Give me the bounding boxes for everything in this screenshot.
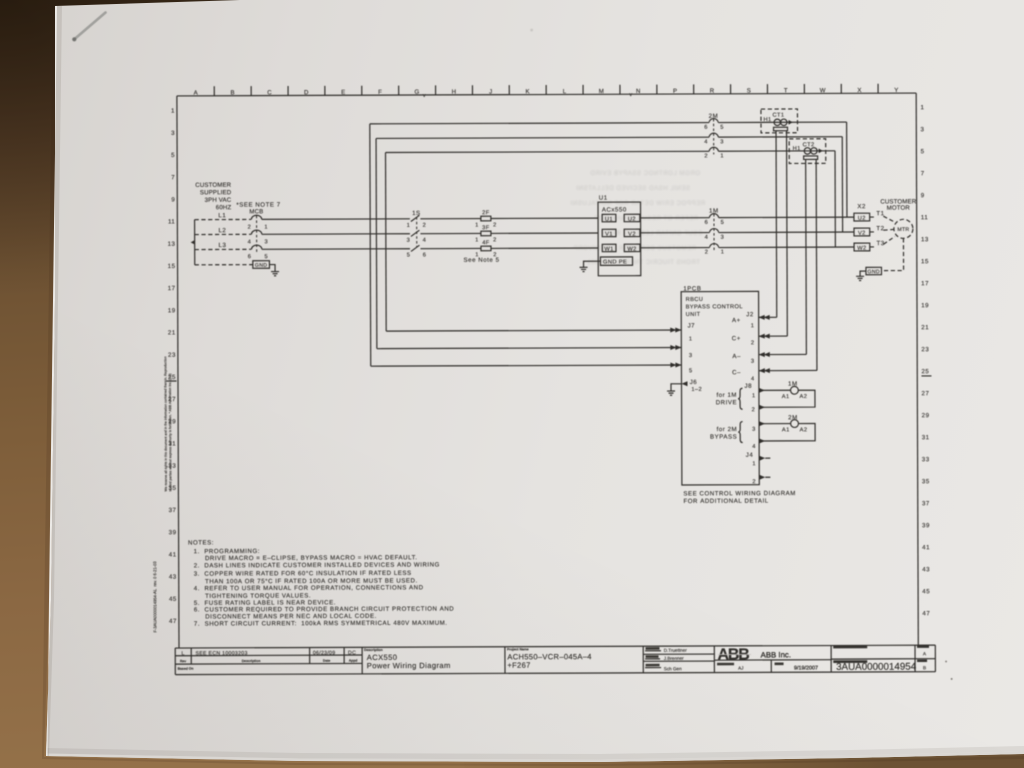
svg-text:RBCU: RBCU [686, 297, 704, 303]
svg-text:4: 4 [751, 376, 755, 382]
svg-text:11: 11 [168, 219, 176, 226]
svg-text:MCB: MCB [249, 208, 263, 215]
svg-text:Description: Description [242, 659, 261, 663]
svg-text:1: 1 [752, 461, 756, 467]
wire J2 pin2 to CT1b [759, 334, 788, 339]
wire J6 ground [671, 384, 682, 391]
svg-text:FOR ADDITIONAL DETAIL: FOR ADDITIONAL DETAIL [683, 498, 768, 505]
ground symbol J6 [667, 391, 675, 395]
svg-text:U1: U1 [605, 217, 613, 223]
svg-text:2: 2 [248, 225, 252, 231]
wire J2 pin3 to CT2a [759, 352, 807, 357]
svg-text:AJ: AJ [738, 666, 743, 671]
svg-text:UNIT: UNIT [686, 312, 701, 318]
svg-text:3: 3 [720, 139, 724, 145]
svg-text:D: D [304, 89, 309, 96]
svg-text:SEE CONTROL WIRING DIAGRAM: SEE CONTROL WIRING DIAGRAM [683, 490, 796, 497]
sheet cell [917, 645, 929, 671]
svg-text:1: 1 [475, 237, 479, 243]
svg-text:3: 3 [752, 427, 756, 433]
svg-text:13: 13 [921, 236, 929, 243]
coil 2M [782, 414, 808, 433]
svg-text:GND PE: GND PE [603, 259, 627, 265]
svg-text:11: 11 [921, 214, 929, 221]
svg-text:A2: A2 [800, 394, 808, 400]
fuse 2F [475, 210, 497, 228]
svg-text:P: P [673, 88, 678, 95]
svg-text:A1: A1 [782, 427, 790, 433]
svg-text:to third parties without expre: to third parties without express authori… [168, 373, 172, 491]
svg-text:1: 1 [751, 323, 755, 329]
document number cell [833, 660, 916, 673]
svg-text:5: 5 [171, 152, 175, 159]
wire J2 pin4 to CT2b [759, 368, 817, 373]
connector J4 [746, 452, 771, 486]
svg-text:L: L [563, 88, 567, 95]
svg-text:41: 41 [922, 544, 930, 551]
svg-text:C: C [267, 89, 272, 96]
svg-text:L: L [181, 651, 184, 657]
svg-text:1: 1 [920, 104, 924, 111]
svg-text:V1: V1 [605, 232, 613, 238]
svg-text:T2: T2 [876, 225, 884, 232]
terminal V2 [624, 229, 640, 237]
svg-text:Description: Description [364, 648, 383, 652]
svg-text:F: F [378, 89, 382, 96]
wire phase U input run [262, 218, 598, 219]
vertical copyright text left margin [163, 356, 172, 491]
wire bypass riser A [369, 124, 372, 366]
svg-text:BYPASS: BYPASS [710, 434, 737, 441]
svg-text:ABB Inc.: ABB Inc. [761, 650, 791, 659]
wire drive output U2 [640, 216, 854, 219]
revision row L [181, 650, 356, 657]
column letters A-Y [194, 87, 899, 97]
svg-text:19: 19 [921, 302, 929, 309]
wire L1 dashed [195, 218, 252, 220]
wire bypass drop to U2 [846, 122, 848, 217]
svg-text:15: 15 [168, 263, 176, 270]
svg-text:Based On: Based On [178, 667, 194, 671]
svg-text:BYPASS CONTROL: BYPASS CONTROL [686, 304, 743, 310]
svg-text:A2: A2 [800, 427, 808, 433]
svg-text:06/23/09: 06/23/09 [313, 650, 336, 656]
svg-text:Appd: Appd [349, 659, 358, 663]
svg-text:9: 9 [921, 192, 925, 199]
svg-text:L2: L2 [218, 227, 226, 234]
svg-text:6: 6 [704, 125, 708, 131]
svg-text:U1: U1 [599, 195, 608, 202]
svg-text:4: 4 [704, 139, 708, 145]
svg-text:7: 7 [171, 174, 175, 181]
svg-text:N: N [636, 88, 641, 95]
connector J2 labels [732, 311, 755, 382]
coil 1M [782, 381, 808, 401]
notes text block [188, 539, 454, 628]
svg-text:1: 1 [475, 223, 479, 229]
underline row 25 right [921, 375, 931, 377]
svg-text:2: 2 [751, 340, 755, 346]
svg-text:2: 2 [752, 407, 756, 413]
svg-text:H1: H1 [793, 146, 801, 152]
svg-text:2F: 2F [482, 210, 490, 216]
svg-text:4F: 4F [482, 240, 490, 246]
node T1 [870, 210, 895, 222]
wire motor ground dashed [881, 238, 903, 270]
drive U1 ACx550 [598, 194, 641, 275]
wire bypass top line 2 [376, 137, 842, 139]
wire 2M coil loop [759, 423, 815, 441]
svg-text:J.Brenner: J.Brenner [664, 656, 684, 661]
svg-text:W2: W2 [857, 246, 866, 252]
svg-text:A: A [194, 90, 199, 97]
terminal GND PE [600, 257, 632, 266]
node L3 [195, 242, 252, 250]
faint bleed-through from reverse side [570, 171, 705, 266]
row numbers right [920, 104, 930, 617]
svg-text:31: 31 [922, 434, 930, 441]
see control wiring note [683, 490, 796, 505]
svg-text:2: 2 [423, 223, 427, 229]
svg-text:2: 2 [705, 250, 709, 256]
label for 2M bypass [710, 422, 743, 443]
svg-text:5: 5 [721, 220, 725, 226]
svg-text:37: 37 [922, 500, 930, 507]
svg-text:J: J [489, 89, 493, 96]
terminal X2 V2 [854, 228, 870, 237]
wire bypass top line 1 [370, 122, 847, 124]
svg-text:4: 4 [705, 235, 709, 241]
svg-text:3: 3 [721, 235, 725, 241]
svg-text:CUSTOMER: CUSTOMER [195, 182, 231, 189]
customer supplied source label [195, 182, 232, 212]
svg-text:3: 3 [689, 353, 693, 359]
svg-text:5: 5 [265, 254, 269, 260]
terminal V1 [602, 229, 616, 237]
svg-text:41: 41 [169, 551, 177, 558]
svg-text:K: K [525, 88, 530, 95]
wire J7 sense line 2 [377, 345, 682, 351]
ground symbol motor [856, 276, 864, 280]
resp dept cell [717, 663, 743, 671]
svg-text:2: 2 [704, 153, 708, 159]
svg-text:5: 5 [720, 125, 724, 131]
terminal GND input [253, 261, 270, 269]
row numbers left [167, 108, 177, 625]
svg-text:5: 5 [921, 148, 925, 155]
svg-text:6: 6 [423, 252, 427, 258]
svg-text:4: 4 [248, 239, 252, 245]
underline row 25 left [166, 380, 176, 382]
svg-text:SUPPLIED: SUPPLIED [200, 189, 232, 196]
title block outline [175, 645, 935, 675]
svg-text:W2: W2 [627, 247, 636, 253]
svg-text:4. REFER TO USER MANUAL FOR O: 4. REFER TO USER MANUAL FOR OPERATION, C… [194, 584, 424, 592]
wire 1M coil loop [759, 390, 815, 407]
svg-text:Power Wiring Diagram: Power Wiring Diagram [367, 661, 451, 670]
wire bypass drop to V2 [841, 137, 843, 232]
svg-text:35: 35 [922, 478, 930, 485]
node L2 [195, 227, 252, 234]
svg-text:DRIVE: DRIVE [716, 399, 737, 406]
svg-text:3: 3 [407, 238, 411, 244]
connector J6 [681, 379, 702, 393]
wire bypass riser C [385, 153, 388, 332]
svg-text:Date: Date [323, 659, 330, 663]
svg-text:1: 1 [689, 336, 693, 342]
svg-text:Sch Gen: Sch Gen [664, 666, 682, 671]
svg-text:43: 43 [169, 574, 177, 581]
svg-text:v: v [629, 92, 632, 98]
svg-text:DC: DC [348, 650, 356, 656]
wire bypass riser B [375, 138, 378, 348]
svg-text:A1: A1 [782, 394, 790, 400]
svg-text:23: 23 [921, 346, 929, 353]
source bracket [191, 220, 195, 265]
svg-text:3: 3 [264, 239, 268, 245]
svg-text:3F: 3F [482, 225, 490, 231]
svg-text:33: 33 [922, 456, 930, 463]
svg-text:2: 2 [752, 479, 756, 485]
svg-text:MOTOR: MOTOR [887, 205, 911, 212]
svg-text:NOTES:: NOTES: [188, 539, 214, 546]
svg-text:1: 1 [752, 393, 756, 399]
column letter ticks [214, 84, 878, 96]
svg-text:F-3AUA0000014954-AL rev. 0 6-: F-3AUA0000014954-AL rev. 0 6-21-03 [152, 561, 157, 633]
wire GND dashed from bracket [195, 264, 253, 266]
svg-text:3. COPPER WIRE RATED FOR 60°C: 3. COPPER WIRE RATED FOR 60°C INSULATION… [194, 570, 412, 578]
svg-text:Y: Y [894, 87, 899, 94]
terminal W2 [624, 244, 640, 252]
svg-text:5: 5 [407, 253, 411, 259]
revision header row [178, 659, 358, 671]
project name cell [507, 647, 592, 670]
date cell [775, 662, 818, 671]
svg-text:Project Name: Project Name [507, 647, 529, 651]
svg-text:2: 2 [493, 237, 497, 243]
svg-text:B: B [923, 665, 926, 671]
svg-text:L1: L1 [218, 212, 226, 219]
svg-text:2. DASH LINES INDICATE CUSTOM: 2. DASH LINES INDICATE CUSTOMER INSTALLE… [194, 562, 440, 570]
motor MTR [894, 219, 913, 238]
node T2 [870, 225, 894, 232]
terminal U1 [602, 214, 616, 222]
svg-text:v: v [423, 93, 426, 99]
terminal X2 U2 [854, 213, 870, 222]
svg-text:9/19/2007: 9/19/2007 [794, 665, 818, 671]
svg-text:15: 15 [921, 258, 929, 265]
svg-text:A+: A+ [732, 317, 741, 324]
wire L2 dashed [195, 233, 252, 235]
svg-text:E: E [341, 89, 346, 96]
contactor 2M [704, 113, 724, 160]
svg-text:47: 47 [922, 610, 930, 617]
svg-text:L3: L3 [219, 242, 227, 249]
wire CT1 secondary a [775, 131, 778, 318]
svg-text:ACx550: ACx550 [602, 206, 627, 213]
svg-text:4: 4 [423, 238, 427, 244]
svg-text:X2: X2 [857, 203, 866, 210]
svg-text:21: 21 [168, 330, 176, 337]
svg-text:39: 39 [169, 529, 177, 536]
svg-text:W: W [820, 87, 826, 94]
svg-text:See Note 5: See Note 5 [464, 257, 500, 264]
svg-text:SENIL HSAD SECIVED DELLATSNI: SENIL HSAD SECIVED DELLATSNI [576, 186, 690, 192]
contactor 1S [407, 210, 427, 259]
svg-text:1: 1 [171, 108, 175, 115]
connector J8 [744, 383, 765, 450]
svg-text:H: H [452, 89, 457, 96]
wire drive ground pigtail [584, 261, 601, 267]
svg-text:6: 6 [705, 220, 709, 226]
reference number cell [833, 646, 867, 649]
paper specks [530, 27, 952, 681]
svg-text:6: 6 [248, 254, 252, 260]
svg-text:29: 29 [922, 412, 930, 419]
svg-text:T: T [784, 87, 788, 94]
wire motor ground stub [860, 271, 866, 276]
wire phase V input run [262, 233, 598, 234]
svg-text:J8: J8 [744, 383, 752, 390]
svg-text:1: 1 [264, 225, 268, 231]
svg-text:4: 4 [752, 444, 756, 450]
label for 1M drive [716, 388, 743, 409]
wire J7 sense line 1 [386, 327, 681, 333]
drawing border frame [177, 93, 918, 648]
wire L3 dashed [195, 248, 252, 250]
svg-text:H1: H1 [763, 117, 771, 123]
svg-text:3PH VAC: 3PH VAC [205, 197, 232, 204]
svg-text:21: 21 [921, 324, 929, 331]
svg-text:25: 25 [921, 368, 929, 375]
current transformer CT2 [789, 139, 826, 164]
svg-text:5: 5 [689, 368, 693, 374]
svg-text:for 1M: for 1M [716, 392, 737, 399]
svg-text:Rev: Rev [180, 659, 186, 663]
svg-text:13: 13 [168, 241, 176, 248]
svg-text:J2: J2 [746, 311, 754, 318]
svg-text:43: 43 [922, 566, 930, 573]
svg-text:17: 17 [921, 280, 929, 287]
svg-text:17: 17 [168, 285, 176, 292]
svg-text:M: M [599, 88, 605, 95]
ground symbol input [271, 272, 279, 276]
svg-text:D.Truettner: D.Truettner [664, 648, 688, 653]
svg-text:G: G [415, 89, 420, 96]
svg-text:9: 9 [171, 196, 175, 203]
svg-text:J7: J7 [688, 322, 696, 329]
bypass control unit 1PCB [681, 285, 759, 485]
current transformer CT1 [761, 109, 798, 133]
wire phase W input run [262, 248, 598, 249]
svg-text:3: 3 [751, 359, 755, 365]
wire CT1 secondary b [786, 131, 789, 336]
svg-text:SEE ECN 10003203: SEE ECN 10003203 [196, 651, 248, 657]
svg-text:1–2: 1–2 [691, 387, 702, 393]
wire CT2 secondary b [815, 159, 818, 370]
svg-text:45: 45 [922, 588, 930, 595]
svg-text:7: 7 [921, 170, 925, 177]
svg-text:V2: V2 [858, 231, 866, 237]
fuse 4F [475, 240, 497, 258]
svg-text:X: X [857, 87, 862, 94]
svg-text:U2: U2 [858, 216, 866, 222]
fuse 3F [475, 225, 497, 243]
svg-text:C+: C+ [732, 335, 741, 342]
wire CT2 secondary a [805, 159, 808, 354]
svg-text:1: 1 [721, 250, 725, 256]
connector J7 [688, 322, 696, 374]
wire to input ground [269, 265, 275, 272]
svg-text:3AUA0000014954: 3AUA0000014954 [836, 662, 917, 673]
svg-text:B: B [230, 89, 235, 96]
wire drive output V2 [640, 231, 854, 234]
svg-text:GND: GND [255, 263, 267, 269]
svg-text:ORGM LORTNOC SSAPYB EVIRD: ORGM LORTNOC SSAPYB EVIRD [590, 171, 700, 177]
terminal X2 W2 [854, 243, 870, 252]
approvals cells [645, 647, 687, 671]
svg-text:3: 3 [171, 130, 175, 137]
svg-text:1: 1 [407, 223, 411, 229]
svg-text:W1: W1 [604, 247, 613, 253]
node L1 [195, 212, 252, 220]
terminal GND motor [866, 267, 882, 275]
svg-text:45: 45 [169, 596, 177, 603]
svg-text:+F267: +F267 [507, 661, 530, 670]
wire J2 pin1 to CT1a [759, 315, 777, 320]
node T3 [870, 236, 895, 247]
contactor 1M [705, 208, 725, 256]
terminal U2 [624, 214, 640, 222]
svg-text:U2: U2 [628, 217, 636, 223]
svg-text:MTR: MTR [897, 227, 909, 233]
svg-text:S: S [747, 88, 752, 95]
description cell [364, 648, 451, 671]
svg-text:2: 2 [493, 222, 497, 228]
svg-text:60HZ: 60HZ [216, 204, 232, 211]
svg-text:A–: A– [732, 353, 741, 360]
ground symbol drive [580, 267, 588, 271]
svg-text:7. SHORT CIRCUIT CURRENT: 10: 7. SHORT CIRCUIT CURRENT: 100kA RMS SYMM… [194, 620, 448, 628]
wire bypass drop to W2 [834, 151, 836, 247]
wire J7 sense line 3 [371, 362, 682, 368]
svg-text:1: 1 [720, 153, 724, 159]
svg-text:for 2M: for 2M [717, 426, 738, 433]
svg-text:J6: J6 [690, 379, 698, 386]
wire drive output W2 [640, 246, 854, 249]
svg-text:V2: V2 [628, 232, 636, 238]
staple top-left [72, 13, 105, 42]
svg-text:R: R [710, 88, 715, 95]
svg-text:19: 19 [168, 307, 176, 314]
svg-text:GND: GND [868, 269, 880, 275]
terminal W1 [602, 244, 616, 252]
svg-text:27: 27 [922, 390, 930, 397]
svg-text:3: 3 [921, 126, 925, 133]
ABB logo [718, 646, 752, 663]
svg-text:A: A [923, 651, 927, 657]
svg-text:23: 23 [168, 352, 176, 359]
svg-text:CT1: CT1 [772, 113, 784, 119]
svg-text:47: 47 [169, 618, 177, 625]
svg-text:39: 39 [922, 522, 930, 529]
wire bypass top line 3 [386, 151, 835, 153]
svg-text:C–: C– [732, 369, 741, 376]
svg-text:37: 37 [169, 507, 177, 514]
svg-text:J4: J4 [746, 452, 754, 459]
breaker MCB [248, 208, 269, 260]
customer motor label [880, 198, 916, 211]
